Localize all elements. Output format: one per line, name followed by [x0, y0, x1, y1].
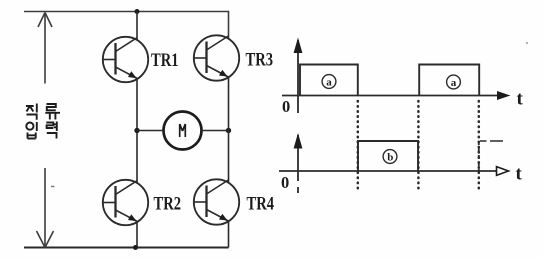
waveform B: time axis	[279, 170, 498, 172]
svg-text:t: t	[516, 164, 523, 185]
wire: top supply rail	[24, 12, 229, 40]
waveform B: next pulse partial top (dashed)	[480, 140, 504, 142]
dimension arrow up (DC input)	[38, 13, 52, 84]
waveform A: time axis	[282, 95, 499, 97]
scan artifact dot	[526, 42, 528, 44]
node: junction right branch / motor	[226, 128, 231, 133]
transistor TR4	[194, 179, 239, 224]
label circled-a in pulse 2	[447, 75, 461, 89]
label 입력 (input) hand-drawn glyphs	[26, 122, 57, 139]
node: junction bottom rail / left branch	[133, 245, 138, 250]
waveform B: pulse b	[358, 141, 418, 171]
wire: left branch top stub	[136, 12, 138, 41]
node: junction top rail / left branch	[135, 9, 140, 14]
waveform B: vertical axis	[297, 135, 299, 181]
waveform A: axis arrowhead up	[294, 38, 303, 54]
wire: right branch bottom stub	[228, 221, 230, 248]
label circled-a in pulse 1	[322, 75, 336, 89]
label circled-b in pulse b	[383, 150, 397, 164]
waveform A: pulse 2	[419, 65, 479, 96]
svg-text:0: 0	[282, 97, 290, 116]
waveform B: next pulse partial rising edge	[478, 141, 480, 171]
waveform B: axis arrowhead up	[294, 133, 303, 149]
svg-text:a: a	[326, 77, 332, 89]
transistor TR3	[194, 35, 239, 80]
svg-text:TR4: TR4	[247, 194, 275, 215]
svg-text:a: a	[451, 77, 457, 89]
transistor TR2	[103, 180, 148, 225]
wire: motor lead left	[137, 130, 164, 132]
waveform A: axis arrowhead right	[497, 91, 511, 100]
wire: left branch middle	[136, 79, 138, 184]
svg-text:TR3: TR3	[246, 50, 274, 71]
motor M	[164, 112, 202, 150]
dotted timing line 1	[357, 101, 360, 190]
dimension arrow down (DC input)	[37, 168, 54, 248]
wire: right branch middle	[228, 77, 230, 183]
svg-text:b: b	[387, 152, 393, 164]
waveform A: pulse 1	[300, 65, 358, 96]
dotted timing line 3	[478, 101, 481, 190]
waveform A: vertical axis	[297, 40, 299, 113]
waveform B: axis arrowhead right	[497, 167, 509, 176]
wire: left branch bottom stub	[136, 222, 138, 248]
svg-text:t: t	[517, 89, 524, 110]
label 직류 (DC) hand-drawn glyphs	[26, 104, 60, 120]
transistor TR1	[103, 37, 148, 82]
wire: motor lead right	[202, 130, 229, 132]
svg-text:0: 0	[281, 173, 289, 192]
dotted timing line 2	[417, 101, 420, 190]
wire: bottom supply rail	[24, 247, 229, 249]
node: junction left branch / motor	[134, 128, 139, 133]
svg-text:TR1: TR1	[151, 50, 179, 71]
scan artifact dash	[51, 186, 55, 188]
svg-text:TR2: TR2	[154, 194, 182, 215]
